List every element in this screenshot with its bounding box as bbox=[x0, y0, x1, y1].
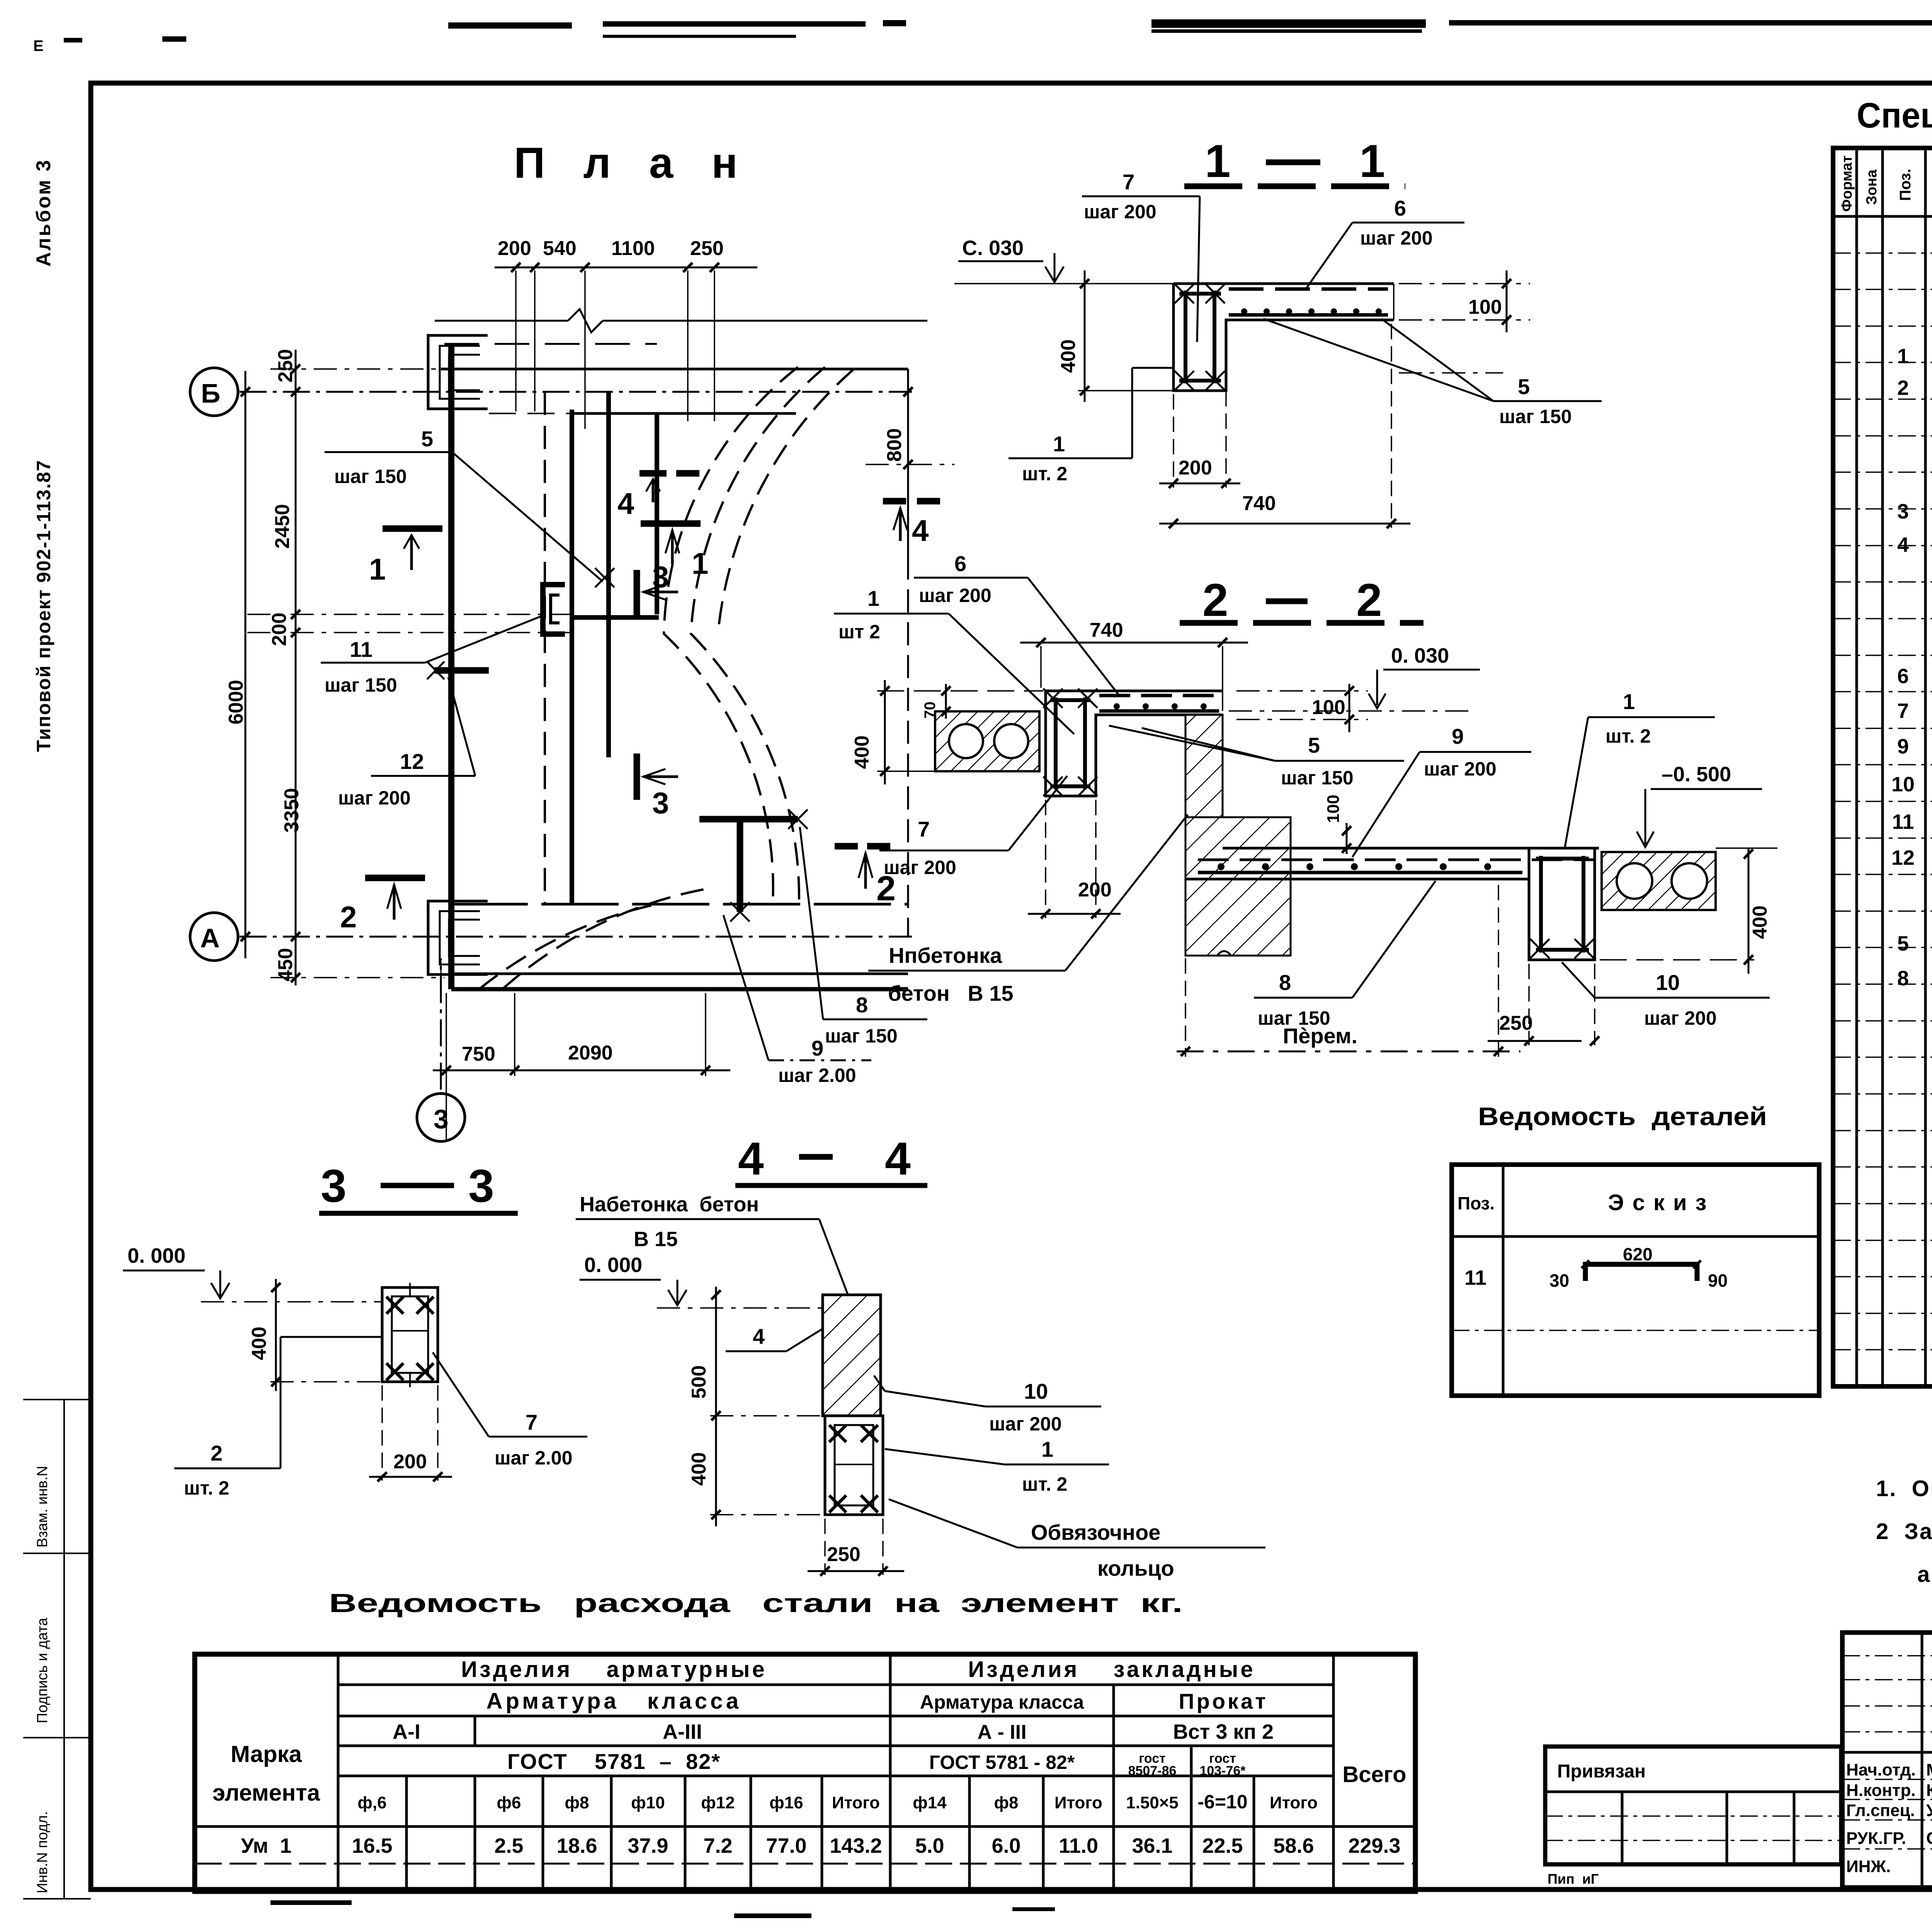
svg-text:Поз.: Поз. bbox=[1897, 168, 1914, 201]
svg-text:103-76*: 103-76* bbox=[1199, 1764, 1246, 1778]
svg-text:Изделия закладные: Изделия закладные bbox=[968, 1657, 1255, 1682]
svg-text:Н.контр.: Н.контр. bbox=[1846, 1781, 1916, 1800]
svg-text:Ведомость расхода стали н: Ведомость расхода стали на элемент кг. bbox=[329, 1588, 1183, 1618]
section 2-2 callout 9 shag 200 bbox=[1352, 724, 1531, 857]
svg-text:16.5: 16.5 bbox=[352, 1834, 392, 1857]
svg-text:5: 5 bbox=[1308, 733, 1320, 757]
svg-text:0. 000: 0. 000 bbox=[584, 1253, 642, 1277]
svg-text:1.50×5: 1.50×5 bbox=[1126, 1793, 1179, 1812]
plan axis 3 vertical bbox=[417, 958, 465, 1141]
svg-text:шаг 200: шаг 200 bbox=[919, 585, 992, 606]
svg-text:Укропова: Укропова bbox=[1926, 1801, 1932, 1820]
svg-text:1: 1 bbox=[1205, 135, 1231, 187]
svg-text:8: 8 bbox=[856, 993, 868, 1017]
svg-text:7: 7 bbox=[1897, 699, 1909, 723]
svg-text:22.5: 22.5 bbox=[1202, 1834, 1243, 1857]
section 2-2 elevation 0.030 bbox=[1229, 644, 1480, 711]
vedomost table bbox=[1452, 1165, 1819, 1396]
svg-text:90: 90 bbox=[1708, 1270, 1728, 1291]
section 2-2 left hollowcore slab bbox=[935, 711, 1039, 771]
svg-text:7: 7 bbox=[918, 817, 930, 841]
svg-text:Итого: Итого bbox=[1270, 1793, 1318, 1812]
section 4-4 callout nabetonka beton B15 bbox=[576, 1193, 849, 1296]
section 1-1 dim 400 bbox=[1057, 270, 1173, 402]
section 4-4 callout 1 sht 2 bbox=[885, 1437, 1109, 1495]
svg-text:400: 400 bbox=[248, 1327, 270, 1360]
section 2-2 pier hatched bbox=[1185, 715, 1291, 956]
section 1-1 callout 7 shag 200 bbox=[1082, 170, 1200, 342]
svg-text:Поз.: Поз. bbox=[1458, 1193, 1495, 1213]
svg-text:4: 4 bbox=[912, 514, 929, 548]
section 2-2 dim 70 small bbox=[922, 684, 951, 719]
section 2-2 L beam bbox=[1043, 689, 1223, 796]
svg-text:6: 6 bbox=[1897, 665, 1909, 688]
svg-text:12: 12 bbox=[1891, 846, 1915, 869]
plan callout 11 shag 150 bbox=[321, 616, 541, 696]
section 4-4 callout obvyazochnoe koltso bbox=[889, 1499, 1265, 1580]
svg-text:Пѐрем.: Пѐрем. bbox=[1283, 1024, 1357, 1048]
section 2-2 callout 5 shag 150 bbox=[1109, 726, 1404, 789]
svg-text:4: 4 bbox=[738, 1133, 764, 1185]
svg-text:11: 11 bbox=[350, 637, 372, 662]
svg-text:ф10: ф10 bbox=[631, 1793, 665, 1812]
svg-text:2.5: 2.5 bbox=[494, 1834, 523, 1857]
svg-text:0. 030: 0. 030 bbox=[1391, 644, 1449, 667]
svg-text:3350: 3350 bbox=[281, 788, 303, 833]
svg-text:Всего: Всего bbox=[1342, 1762, 1406, 1787]
section 1-1 reinforcement bbox=[1175, 284, 1388, 390]
svg-text:400: 400 bbox=[688, 1452, 710, 1486]
svg-text:-6=10: -6=10 bbox=[1197, 1791, 1247, 1813]
svg-text:Вст 3 кп 2: Вст 3 кп 2 bbox=[1173, 1720, 1274, 1743]
svg-text:РУК.ГР.: РУК.ГР. bbox=[1846, 1829, 1906, 1848]
section 2-2 callout 1 sht 2 upper-left bbox=[834, 586, 1074, 734]
svg-text:шаг 2.00: шаг 2.00 bbox=[778, 1065, 856, 1086]
svg-text:540: 540 bbox=[543, 237, 577, 260]
svg-text:8: 8 bbox=[1279, 970, 1291, 995]
plan section mark 3 upper bbox=[637, 560, 678, 616]
section 1-1 callout 1 sht 2 bbox=[1009, 368, 1175, 485]
svg-text:Курленко: Курленко bbox=[1926, 1781, 1932, 1800]
section 2-2 dim 740 bbox=[1020, 619, 1248, 711]
svg-text:Суворов: Суворов bbox=[1926, 1829, 1932, 1848]
section 1-1 title bbox=[1184, 135, 1405, 187]
section 2-2 right beam bbox=[1529, 848, 1595, 960]
svg-text:Арматура класса: Арматура класса bbox=[486, 1689, 742, 1714]
title block staff names bbox=[1846, 1760, 1932, 1876]
svg-text:Альбом 3: Альбом 3 bbox=[32, 158, 55, 267]
svg-text:5: 5 bbox=[421, 427, 433, 451]
svg-text:5: 5 bbox=[1897, 932, 1909, 955]
svg-text:шаг 200: шаг 200 bbox=[338, 787, 411, 809]
plan section mark 4 right bbox=[883, 501, 943, 548]
section 1-1 dim 100 right bbox=[1399, 270, 1530, 332]
svg-text:Манкаускас: Манкаускас bbox=[1926, 1760, 1932, 1779]
plan axis B horizontal bbox=[190, 368, 912, 416]
section 3-3 dim 200 bbox=[369, 1385, 452, 1481]
svg-text:10: 10 bbox=[1891, 773, 1915, 796]
svg-text:400: 400 bbox=[1749, 905, 1771, 939]
section 2-2 dim 100 rotated bbox=[1324, 795, 1351, 854]
section 3-3 title bbox=[319, 1160, 518, 1213]
section 2-2 dim 250 bbox=[1488, 964, 1599, 1046]
svg-text:Формат: Формат bbox=[1839, 155, 1855, 212]
svg-text:шаг 200: шаг 200 bbox=[1084, 201, 1156, 223]
svg-text:6: 6 bbox=[954, 551, 966, 576]
svg-text:6000: 6000 bbox=[225, 680, 247, 724]
svg-text:10: 10 bbox=[1656, 970, 1680, 995]
svg-text:ГОСТ 5781 - 82*: ГОСТ 5781 - 82* bbox=[929, 1752, 1075, 1773]
svg-text:100: 100 bbox=[1312, 696, 1345, 719]
svg-text:1: 1 bbox=[692, 546, 708, 580]
svg-text:Арматура класса: Арматура класса bbox=[920, 1691, 1085, 1713]
svg-text:2: 2 bbox=[1897, 376, 1909, 400]
svg-text:шт. 2: шт. 2 bbox=[1022, 463, 1067, 485]
svg-text:250: 250 bbox=[690, 237, 724, 260]
plan callout 12 shag 200 bbox=[338, 677, 475, 809]
svg-text:ф12: ф12 bbox=[701, 1793, 735, 1812]
plan section mark 3 lower bbox=[637, 753, 678, 820]
svg-text:450: 450 bbox=[274, 948, 297, 981]
svg-text:0. 000: 0. 000 bbox=[128, 1244, 185, 1267]
plan left dimension chain 250 2450 200 3350 450 bbox=[247, 349, 572, 985]
plan bottom dimension chain 750 2090 bbox=[433, 993, 730, 1140]
section 4-4 hatched wall bbox=[823, 1295, 881, 1416]
svg-text:ф8: ф8 bbox=[994, 1793, 1019, 1812]
section 2-2 mark 2 bbox=[835, 846, 896, 908]
section 4-4 dims 500 400 bbox=[688, 1287, 825, 1526]
section 2-2 elevation -0.500 bbox=[1637, 763, 1777, 848]
svg-text:4: 4 bbox=[753, 1324, 765, 1349]
svg-text:шаг 2.00: шаг 2.00 bbox=[495, 1447, 573, 1469]
svg-text:шаг 150: шаг 150 bbox=[325, 674, 397, 696]
svg-text:шт. 2: шт. 2 bbox=[1022, 1473, 1067, 1495]
section 4-4 column below bbox=[825, 1416, 883, 1515]
section 3-3 callout 7 shag 200 bbox=[433, 1352, 587, 1469]
svg-text:740: 740 bbox=[1090, 619, 1123, 641]
plan callout 5 shag 150 bbox=[325, 427, 614, 587]
svg-text:2450: 2450 bbox=[271, 504, 294, 549]
section 1-1 dim 740 bbox=[1159, 324, 1410, 528]
svg-text:А-III: А-III bbox=[663, 1720, 702, 1743]
svg-text:В 15: В 15 bbox=[634, 1228, 678, 1251]
svg-text:кольцо: кольцо bbox=[1097, 1556, 1174, 1580]
svg-text:1: 1 bbox=[1041, 1437, 1053, 1461]
section 1-1 beam and slab outline bbox=[1173, 284, 1394, 391]
svg-text:620: 620 bbox=[1623, 1244, 1653, 1264]
plan right dimension 800 bbox=[866, 371, 954, 510]
svg-text:1: 1 bbox=[1359, 135, 1385, 187]
section 2-2 dim Perem bbox=[1177, 885, 1520, 1057]
plan callout 8 shag 150 right bbox=[800, 827, 927, 1047]
svg-text:шт. 2: шт. 2 bbox=[184, 1477, 229, 1499]
svg-text:3: 3 bbox=[652, 560, 669, 594]
svg-text:2: 2 bbox=[340, 900, 357, 934]
steel table grid bbox=[195, 1654, 1415, 1891]
svg-text:100: 100 bbox=[1324, 795, 1343, 823]
svg-text:арматуры – 30 мм.: арматуры – 30 мм. bbox=[1917, 1562, 1932, 1587]
svg-text:элемента: элемента bbox=[213, 1780, 320, 1806]
svg-text:Ум 1: Ум 1 bbox=[241, 1834, 292, 1857]
section 4-4 callout 10 shag 200 bbox=[874, 1376, 1101, 1435]
svg-text:8: 8 bbox=[1897, 967, 1909, 990]
plan walls bbox=[435, 309, 927, 989]
svg-text:9: 9 bbox=[811, 1036, 823, 1060]
svg-text:шаг 200: шаг 200 bbox=[1360, 227, 1433, 249]
svg-text:11.0: 11.0 bbox=[1059, 1834, 1098, 1857]
svg-text:шаг 150: шаг 150 bbox=[1499, 406, 1572, 427]
plan rebar bar 12 bbox=[427, 662, 489, 679]
svg-text:шаг 200: шаг 200 bbox=[884, 857, 956, 878]
svg-text:1: 1 bbox=[1897, 345, 1909, 368]
section 1-1 dim 200 bbox=[1159, 324, 1240, 488]
svg-text:ГОСТ 5781 – 82*: ГОСТ 5781 – 82* bbox=[507, 1749, 721, 1774]
plan callout 9 shag 200 bottom bbox=[723, 915, 871, 1086]
svg-text:400: 400 bbox=[1057, 339, 1080, 373]
section 2-2 dim 100 horizontal upper bbox=[1236, 684, 1368, 732]
svg-text:11: 11 bbox=[1464, 1266, 1486, 1289]
section 2-2 right hollowcore slab bbox=[1602, 852, 1716, 910]
svg-text:1: 1 bbox=[369, 552, 386, 586]
svg-text:Марка: Марка bbox=[231, 1741, 302, 1767]
svg-text:7: 7 bbox=[526, 1410, 537, 1434]
svg-text:5: 5 bbox=[1518, 374, 1530, 399]
svg-text:Е: Е bbox=[33, 37, 44, 54]
privyazan table bbox=[1545, 1747, 1841, 1887]
section 4-4 title bbox=[735, 1133, 927, 1185]
svg-text:30: 30 bbox=[1549, 1270, 1569, 1291]
svg-text:ИНЖ.: ИНЖ. bbox=[1846, 1857, 1891, 1876]
svg-text:1: 1 bbox=[1623, 689, 1635, 714]
section 2-2 callout nabetonka bbox=[868, 815, 1188, 1005]
svg-text:шаг 150: шаг 150 bbox=[1281, 767, 1354, 789]
svg-text:Привязан: Привязан bbox=[1557, 1761, 1646, 1782]
section 1-1 callout 6 shag 200 bbox=[1305, 196, 1464, 290]
svg-text:3: 3 bbox=[321, 1160, 347, 1212]
plan section mark 1 left bbox=[369, 529, 442, 586]
plan outer dimension 6000 bbox=[225, 371, 250, 958]
svg-text:800: 800 bbox=[883, 428, 906, 462]
svg-text:ф8: ф8 bbox=[565, 1793, 589, 1812]
svg-text:100: 100 bbox=[1468, 296, 1502, 318]
svg-text:Набетонка бетон: Набетонка бетон bbox=[580, 1193, 759, 1216]
svg-text:С. 030: С. 030 bbox=[962, 236, 1024, 260]
svg-text:77.0: 77.0 bbox=[766, 1834, 806, 1857]
svg-text:3: 3 bbox=[1897, 500, 1909, 523]
svg-text:36.1: 36.1 bbox=[1132, 1834, 1172, 1857]
svg-text:шт. 2: шт. 2 bbox=[1605, 725, 1651, 747]
svg-text:шаг 200: шаг 200 bbox=[989, 1413, 1062, 1435]
svg-text:Прокат: Прокат bbox=[1179, 1689, 1268, 1713]
svg-text:Нач.отд.: Нач.отд. bbox=[1846, 1760, 1916, 1779]
section 2-2 dim 400 right bbox=[1600, 848, 1771, 974]
svg-text:4: 4 bbox=[885, 1133, 911, 1185]
section 3-3 elevation 0.000 bbox=[123, 1244, 383, 1302]
spec table grid bbox=[1833, 148, 1932, 1386]
svg-text:Обвязочное: Обвязочное bbox=[1031, 1520, 1160, 1544]
steel table header texts bbox=[213, 1657, 1406, 1857]
svg-text:3: 3 bbox=[468, 1160, 494, 1212]
plan detail 11 bracket bbox=[543, 585, 565, 634]
section 2-2 title bbox=[1180, 574, 1423, 626]
svg-text:Ведомость деталей: Ведомость деталей bbox=[1478, 1102, 1767, 1131]
svg-text:8507-86: 8507-86 bbox=[1128, 1764, 1177, 1778]
plan circular wall arcs dashed bbox=[479, 367, 854, 989]
svg-text:37.9: 37.9 bbox=[628, 1834, 668, 1857]
svg-text:143.2: 143.2 bbox=[830, 1834, 882, 1857]
svg-text:10: 10 bbox=[1024, 1379, 1048, 1403]
svg-text:2: 2 bbox=[1202, 574, 1228, 626]
svg-text:1100: 1100 bbox=[611, 237, 655, 260]
plan axis A horizontal bbox=[190, 913, 912, 961]
section 4-4 elevation 0.000 bbox=[580, 1253, 823, 1308]
svg-text:1. Опалубочный чертеж см.: 1. Опалубочный чертеж см. лист 19. bbox=[1876, 1476, 1932, 1501]
svg-text:шаг 200: шаг 200 bbox=[1644, 1007, 1717, 1029]
plan rebar bars center bottom bbox=[699, 810, 808, 922]
section 2-2 callout 8 shag 150 bbox=[1254, 881, 1435, 1029]
svg-text:6: 6 bbox=[1394, 196, 1406, 220]
plan vertical rebar line bbox=[606, 392, 611, 757]
svg-text:200: 200 bbox=[1078, 879, 1112, 901]
section 2-2 callout 1 sht 2 bbox=[1565, 689, 1715, 847]
svg-text:Гл.спец.: Гл.спец. bbox=[1846, 1801, 1915, 1820]
section 3-3 column bbox=[382, 1283, 438, 1387]
section 3-3 dim 400 bbox=[248, 1279, 383, 1391]
plan embedded frame detail top-left bbox=[428, 335, 488, 409]
svg-text:5.0: 5.0 bbox=[915, 1834, 944, 1857]
svg-text:Инв.N подл.: Инв.N подл. bbox=[34, 1811, 51, 1893]
section 2-2 callout 7 shag 200 bbox=[879, 776, 1067, 878]
svg-text:П л а н: П л а н bbox=[514, 139, 751, 187]
svg-text:200: 200 bbox=[268, 612, 291, 646]
section 4-4 dim 250 bbox=[808, 1519, 904, 1576]
svg-text:Эскиз: Эскиз bbox=[1608, 1190, 1715, 1215]
svg-text:9: 9 bbox=[1452, 724, 1464, 748]
svg-text:4: 4 bbox=[1897, 533, 1909, 556]
section 3-3 callout 2 sht 2 bbox=[174, 1337, 383, 1499]
svg-text:3: 3 bbox=[652, 786, 669, 820]
svg-text:ф14: ф14 bbox=[913, 1793, 947, 1812]
svg-text:250: 250 bbox=[1499, 1012, 1533, 1034]
svg-text:500: 500 bbox=[688, 1365, 710, 1399]
svg-text:шаг 150: шаг 150 bbox=[825, 1025, 898, 1047]
svg-text:7: 7 bbox=[1122, 170, 1134, 194]
section 2-2 mid slab bbox=[1185, 848, 1599, 879]
section 1-1 callout 5 shag 150 bbox=[1264, 319, 1602, 427]
svg-text:ф,6: ф,6 bbox=[357, 1793, 386, 1812]
svg-text:Б: Б bbox=[201, 378, 220, 408]
svg-text:4: 4 bbox=[617, 486, 634, 520]
svg-text:Спецификация монолитного уч: Спецификация монолитного участка УмЗ bbox=[1857, 96, 1932, 135]
svg-text:1: 1 bbox=[867, 586, 879, 611]
svg-text:11: 11 bbox=[1892, 810, 1914, 833]
svg-text:2: 2 bbox=[211, 1441, 223, 1465]
svg-text:Итого: Итого bbox=[1054, 1793, 1102, 1812]
svg-text:200: 200 bbox=[498, 237, 531, 260]
plan section mark 2 left bbox=[340, 878, 425, 934]
plan section marks 4 and 1 top middle bbox=[617, 473, 708, 580]
section 2-2 dim 400 left bbox=[851, 680, 1043, 784]
svg-text:7.2: 7.2 bbox=[703, 1834, 732, 1857]
svg-text:250: 250 bbox=[827, 1543, 861, 1566]
svg-text:9: 9 bbox=[1897, 735, 1909, 758]
svg-text:шт 2: шт 2 bbox=[838, 621, 880, 643]
svg-text:Подпись и дата: Подпись и дата bbox=[34, 1617, 51, 1723]
svg-text:Типовой проект 902-1-113.87: Типовой проект 902-1-113.87 bbox=[33, 459, 54, 752]
svg-text:70: 70 bbox=[922, 702, 939, 719]
section 2-2 callout 6 shag 200 upper-left bbox=[914, 551, 1119, 695]
svg-text:Зона: Зона bbox=[1864, 169, 1880, 205]
svg-text:6.0: 6.0 bbox=[992, 1834, 1020, 1857]
svg-text:2: 2 bbox=[1356, 574, 1382, 626]
svg-text:750: 750 bbox=[462, 1043, 495, 1065]
plan embedded frame detail bottom-left bbox=[428, 901, 488, 975]
svg-text:2 Защитный слой бетона для: 2 Защитный слой бетона для рабочей bbox=[1876, 1519, 1932, 1544]
notes text bbox=[1876, 1476, 1932, 1587]
svg-text:200: 200 bbox=[1179, 457, 1212, 479]
svg-text:400: 400 bbox=[851, 735, 873, 769]
section 1-1 elevation mark 0.030 bbox=[954, 236, 1173, 284]
svg-text:Пип иГ: Пип иГ bbox=[1548, 1871, 1599, 1887]
plan top dimension chain 200 540 1100 250 bbox=[495, 237, 757, 429]
svg-text:ф6: ф6 bbox=[497, 1793, 521, 1812]
section 2-2 callout 10 shag 200 bbox=[1562, 962, 1770, 1029]
title block main bbox=[1842, 1633, 1932, 1888]
svg-text:58.6: 58.6 bbox=[1273, 1834, 1314, 1857]
svg-text:12: 12 bbox=[400, 749, 424, 774]
svg-text:А-I: А-I bbox=[393, 1720, 420, 1743]
left margin stamp texts bbox=[23, 158, 91, 1899]
svg-text:шаг 150: шаг 150 bbox=[334, 466, 407, 487]
svg-text:Изделия арматурные: Изделия арматурные bbox=[461, 1657, 767, 1682]
svg-text:–0. 500: –0. 500 bbox=[1662, 763, 1731, 786]
svg-text:бетон В 15: бетон В 15 bbox=[888, 981, 1014, 1005]
spec table header texts bbox=[1839, 155, 1932, 212]
svg-text:229.3: 229.3 bbox=[1348, 1834, 1400, 1857]
spec table body texts bbox=[1891, 315, 1932, 1099]
svg-text:2090: 2090 bbox=[568, 1042, 613, 1064]
section 2-2 dim 200 bbox=[1028, 800, 1121, 918]
svg-text:А: А bbox=[200, 923, 220, 953]
svg-text:250: 250 bbox=[274, 349, 297, 383]
svg-text:ф16: ф16 bbox=[769, 1793, 803, 1812]
svg-text:18.6: 18.6 bbox=[556, 1834, 597, 1857]
svg-text:Взам. инв.N: Взам. инв.N bbox=[34, 1466, 51, 1548]
svg-text:740: 740 bbox=[1242, 492, 1276, 515]
svg-text:А - III: А - III bbox=[977, 1721, 1026, 1743]
section 4-4 callout 4 bbox=[726, 1324, 822, 1351]
svg-text:200: 200 bbox=[393, 1451, 427, 1473]
svg-text:Нпбетонка: Нпбетонка bbox=[889, 943, 1002, 968]
svg-text:1: 1 bbox=[1053, 432, 1065, 456]
svg-text:Итого: Итого bbox=[832, 1793, 880, 1812]
svg-text:шаг 200: шаг 200 bbox=[1424, 758, 1497, 780]
vedomost sketch detail 11 bbox=[1549, 1244, 1728, 1291]
